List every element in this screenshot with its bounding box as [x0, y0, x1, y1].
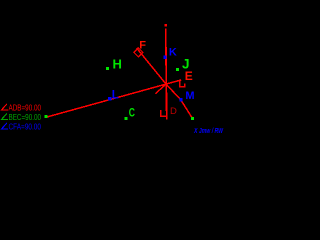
- svg-text:M: M: [185, 90, 194, 102]
- wire: short segment from orthocenter toward C: [155, 85, 165, 94]
- svg-text:CFA=90.00: CFA=90.00: [9, 122, 42, 131]
- wire: long shallow line through L to E foot: [48, 80, 182, 117]
- svg-text:K: K: [169, 47, 177, 59]
- node M (blue point): [179, 98, 182, 101]
- node L (blue point on shallow line): [108, 97, 111, 100]
- wire: segment from M area to green endpoint bottom-right: [181, 100, 193, 119]
- measurement angle BEC (green): [2, 114, 8, 120]
- wire: altitude line AD (vertical red line): [166, 29, 167, 120]
- svg-text:ADB=90.00: ADB=90.00: [9, 103, 42, 112]
- measurement angle ADB (red): [2, 104, 8, 110]
- svg-text:D: D: [170, 106, 177, 117]
- right-angle marker at E: [180, 81, 185, 87]
- node A (red point at top of altitude): [164, 24, 167, 27]
- svg-text:L: L: [112, 90, 119, 102]
- node C (green point): [124, 117, 127, 120]
- node J (green point): [176, 68, 179, 71]
- right-angle marker at F (rotated square): [134, 48, 143, 57]
- svg-text:C: C: [129, 106, 135, 120]
- svg-text:BEC=90.00: BEC=90.00: [9, 113, 42, 122]
- wire: line through F marker, crossing, toward M area: [137, 48, 181, 100]
- measurement angle CFA (blue): [2, 123, 8, 129]
- svg-text:X Jmw / RW: X Jmw / RW: [193, 128, 224, 135]
- node bottom-right endpoint (green point): [191, 117, 194, 120]
- svg-text:F: F: [139, 40, 146, 52]
- right-angle marker at D: [161, 110, 167, 116]
- svg-text:H: H: [113, 56, 122, 71]
- node H (green point): [106, 67, 109, 70]
- svg-text:E: E: [185, 69, 193, 83]
- node K (blue point on altitude): [163, 56, 166, 59]
- node left endpoint (green point near measurements): [45, 115, 48, 118]
